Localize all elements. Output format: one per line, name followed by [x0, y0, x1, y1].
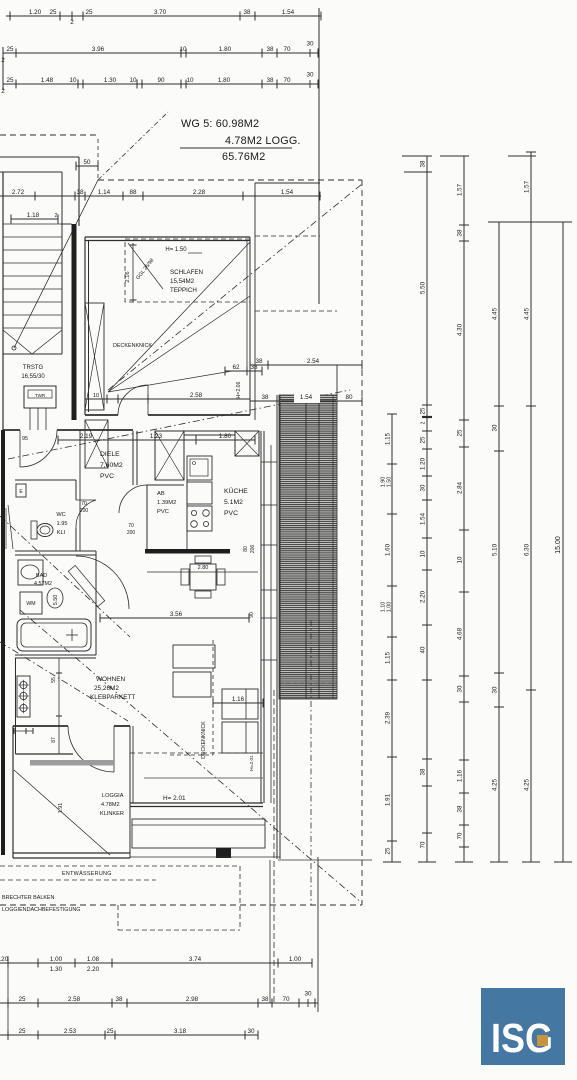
svg-text:70: 70 [81, 501, 87, 507]
svg-text:2.72: 2.72 [12, 189, 25, 196]
svg-text:1.48: 1.48 [41, 77, 54, 84]
svg-text:70: 70 [283, 46, 291, 53]
svg-text:5.10: 5.10 [492, 543, 499, 556]
svg-text:4.78M2: 4.78M2 [101, 802, 120, 808]
svg-text:65.76M2: 65.76M2 [222, 151, 265, 163]
svg-text:1.57: 1.57 [457, 183, 464, 196]
svg-text:5.50: 5.50 [420, 281, 427, 294]
svg-text:62: 62 [232, 364, 240, 371]
svg-text:BAD: BAD [36, 573, 47, 579]
svg-text:70: 70 [457, 832, 464, 839]
svg-text:KLINKER: KLINKER [100, 811, 124, 817]
svg-text:95: 95 [22, 436, 28, 442]
svg-text:H=2.06: H=2.06 [236, 381, 242, 398]
svg-text:PVC: PVC [100, 473, 114, 480]
svg-text:200: 200 [80, 508, 89, 514]
svg-text:3.56: 3.56 [170, 611, 183, 618]
svg-text:4.25: 4.25 [524, 778, 531, 791]
svg-text:1.15: 1.15 [385, 432, 392, 445]
svg-text:1.30: 1.30 [50, 966, 63, 973]
svg-text:2.54: 2.54 [307, 358, 320, 365]
svg-text:38: 38 [115, 996, 123, 1003]
svg-text:1.08: 1.08 [87, 956, 100, 963]
svg-text:2.98: 2.98 [186, 996, 199, 1003]
svg-text:1.80: 1.80 [219, 46, 232, 53]
svg-text:80: 80 [243, 546, 249, 552]
svg-text:2: 2 [421, 421, 427, 424]
svg-text:TEPPICH: TEPPICH [170, 287, 197, 294]
svg-text:200: 200 [127, 530, 136, 536]
svg-text:3.96: 3.96 [92, 46, 105, 53]
svg-text:30: 30 [420, 484, 427, 491]
svg-text:BRECHTER BALKEN: BRECHTER BALKEN [2, 895, 55, 901]
svg-text:2.20: 2.20 [87, 966, 100, 973]
svg-text:1.20: 1.20 [29, 9, 42, 16]
svg-text:1.80: 1.80 [218, 77, 231, 84]
svg-text:25: 25 [420, 436, 427, 443]
svg-text:AB: AB [157, 491, 165, 497]
svg-text:1.39M2: 1.39M2 [157, 500, 176, 506]
svg-text:25: 25 [457, 429, 464, 436]
svg-text:40: 40 [420, 646, 427, 653]
svg-text:10: 10 [129, 77, 137, 84]
svg-text:1.54: 1.54 [300, 394, 313, 401]
svg-text:ENTWÄSSERUNG: ENTWÄSSERUNG [62, 870, 112, 877]
svg-text:2: 2 [70, 19, 74, 26]
svg-text:2.53: 2.53 [64, 1028, 77, 1035]
svg-text:1.80: 1.80 [219, 433, 232, 440]
svg-text:2.80: 2.80 [198, 565, 209, 571]
svg-text:25: 25 [18, 996, 26, 1003]
svg-text:25,26M2: 25,26M2 [94, 685, 119, 692]
svg-text:90: 90 [157, 77, 165, 84]
svg-text:DECKENKNICK: DECKENKNICK [113, 343, 152, 349]
svg-text:10: 10 [420, 550, 427, 557]
svg-text:38: 38 [420, 768, 427, 775]
svg-text:30: 30 [306, 72, 314, 79]
svg-text:25: 25 [420, 407, 427, 414]
svg-text:KLI: KLI [57, 530, 66, 536]
svg-text:88: 88 [129, 189, 137, 196]
svg-text:30: 30 [457, 685, 464, 692]
svg-text:1.57: 1.57 [524, 180, 531, 193]
svg-text:SCHLAFEN: SCHLAFEN [170, 269, 203, 276]
svg-text:PVC: PVC [157, 509, 169, 515]
svg-text:2.28: 2.28 [193, 189, 206, 196]
svg-text:TWR: TWR [35, 393, 46, 398]
svg-text:10: 10 [179, 46, 187, 53]
svg-text:38: 38 [261, 996, 269, 1003]
svg-text:WOHNEN: WOHNEN [96, 676, 125, 683]
svg-text:70: 70 [282, 996, 290, 1003]
svg-text:38: 38 [255, 358, 263, 365]
svg-text:4.45: 4.45 [524, 307, 531, 320]
svg-text:70: 70 [420, 841, 427, 848]
svg-text:30: 30 [492, 424, 499, 431]
svg-text:4.30: 4.30 [457, 323, 464, 336]
svg-text:4.68: 4.68 [457, 627, 464, 640]
svg-text:WG 5: 60.98M2: WG 5: 60.98M2 [181, 118, 259, 130]
svg-text:1.30: 1.30 [104, 77, 117, 84]
svg-text:206: 206 [250, 545, 256, 554]
svg-text:25: 25 [49, 9, 57, 16]
svg-text:4.78M2 LOGG.: 4.78M2 LOGG. [225, 135, 301, 147]
svg-text:10: 10 [93, 393, 99, 399]
svg-text:90: 90 [249, 612, 255, 618]
svg-text:H= 1.50: H= 1.50 [165, 247, 187, 253]
svg-text:15.00: 15.00 [555, 536, 562, 554]
svg-text:10: 10 [457, 556, 464, 563]
svg-text:3.70: 3.70 [154, 9, 167, 16]
svg-text:1.16: 1.16 [232, 696, 245, 703]
svg-text:7,60M2: 7,60M2 [100, 462, 123, 469]
svg-text:DIELE: DIELE [100, 451, 120, 458]
svg-text:WC: WC [56, 512, 65, 518]
svg-text:1.23: 1.23 [150, 433, 163, 440]
svg-text:2.58: 2.58 [190, 392, 203, 399]
svg-text:70: 70 [128, 523, 134, 529]
svg-text:25: 25 [85, 9, 93, 16]
svg-text:16,55/30: 16,55/30 [21, 374, 45, 380]
svg-text:38: 38 [76, 189, 84, 196]
svg-text:1.91: 1.91 [385, 793, 392, 806]
svg-text:1.50: 1.50 [386, 477, 392, 488]
svg-text:38: 38 [420, 160, 427, 167]
svg-text:30: 30 [306, 41, 314, 48]
svg-text:2.39: 2.39 [385, 711, 392, 724]
svg-text:15,54M2: 15,54M2 [170, 278, 195, 285]
svg-text:1.14: 1.14 [98, 189, 111, 196]
svg-text:25: 25 [18, 1028, 26, 1035]
svg-text:80: 80 [345, 394, 353, 401]
svg-text:1.00: 1.00 [386, 602, 392, 613]
svg-text:4,57M2: 4,57M2 [34, 581, 52, 587]
svg-text:1.95: 1.95 [57, 521, 68, 527]
svg-text:1.18: 1.18 [27, 212, 40, 219]
svg-text:1.20: 1.20 [420, 457, 427, 470]
svg-text:30: 30 [304, 991, 312, 998]
svg-text:1.00: 1.00 [50, 956, 63, 963]
svg-text:1.54: 1.54 [420, 512, 427, 525]
svg-text:25: 25 [6, 77, 14, 84]
svg-text:30: 30 [247, 1028, 255, 1035]
svg-text:38: 38 [243, 9, 251, 16]
svg-text:25: 25 [385, 847, 392, 854]
svg-text:1.60: 1.60 [385, 543, 392, 556]
svg-text:70: 70 [283, 77, 291, 84]
svg-text:KÜCHE: KÜCHE [224, 487, 248, 495]
svg-text:H=2.01: H=2.01 [249, 755, 255, 771]
svg-text:2.20: 2.20 [420, 590, 427, 603]
svg-text:25: 25 [6, 46, 14, 53]
svg-text:4.45: 4.45 [492, 307, 499, 320]
svg-text:H= 2.01: H= 2.01 [163, 795, 186, 802]
svg-text:PVC: PVC [224, 510, 238, 517]
svg-text:1.54: 1.54 [281, 189, 294, 196]
svg-text:38: 38 [266, 46, 274, 53]
svg-text:TRSTG: TRSTG [23, 365, 44, 371]
svg-text:2.19: 2.19 [80, 433, 93, 440]
svg-text:1.15: 1.15 [385, 651, 392, 664]
svg-text:87: 87 [51, 737, 57, 743]
svg-text:2.84: 2.84 [457, 481, 464, 494]
svg-text:50: 50 [83, 159, 91, 166]
svg-text:38: 38 [457, 805, 464, 812]
svg-text:4.25: 4.25 [492, 778, 499, 791]
svg-text:10: 10 [186, 77, 194, 84]
svg-text:30: 30 [492, 686, 499, 693]
svg-text:1.20: 1.20 [0, 956, 9, 963]
svg-text:38: 38 [266, 77, 274, 84]
svg-text:2.16: 2.16 [125, 271, 131, 282]
svg-text:WM: WM [26, 601, 35, 607]
svg-text:6.30: 6.30 [524, 543, 531, 556]
svg-text:1.54: 1.54 [282, 9, 295, 16]
svg-text:5.50: 5.50 [53, 595, 59, 606]
svg-text:3.18: 3.18 [174, 1028, 187, 1035]
svg-text:LOGGIA: LOGGIA [102, 793, 124, 799]
svg-text:1.16: 1.16 [457, 769, 464, 782]
svg-text:10: 10 [69, 77, 77, 84]
svg-text:LOGGIENDACHBEFESTIGUNG: LOGGIENDACHBEFESTIGUNG [2, 907, 80, 913]
svg-text:2: 2 [54, 213, 57, 219]
svg-text:1.00: 1.00 [289, 956, 302, 963]
svg-text:25: 25 [106, 1028, 114, 1035]
svg-text:5.1M2: 5.1M2 [224, 499, 243, 506]
svg-text:55: 55 [51, 677, 57, 683]
svg-text:38: 38 [261, 394, 269, 401]
svg-text:2.58: 2.58 [68, 996, 81, 1003]
svg-text:38: 38 [457, 229, 464, 236]
svg-text:3.74: 3.74 [189, 956, 202, 963]
svg-text:KLEBPARKETT: KLEBPARKETT [90, 694, 135, 701]
